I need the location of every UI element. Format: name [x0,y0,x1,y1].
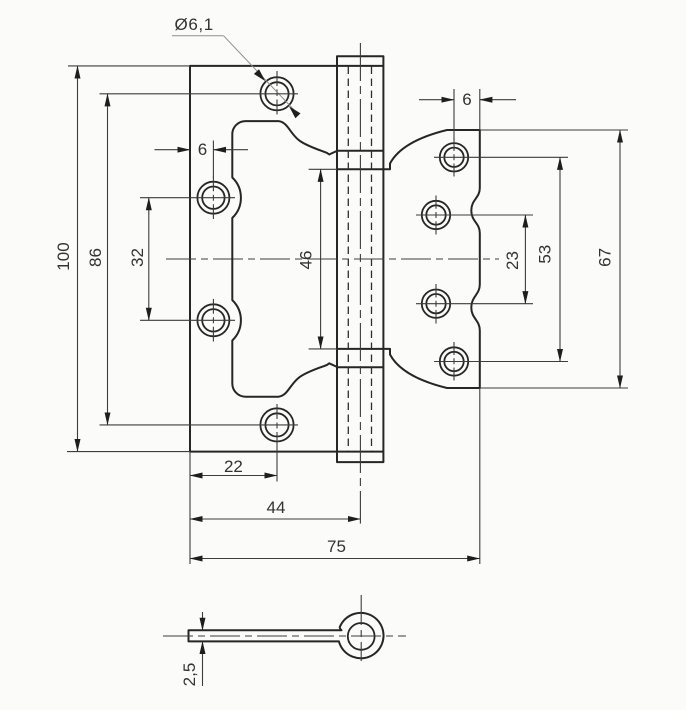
dim 86 extension bottom through hole [100,424,299,426]
dim 6 right extension left [453,89,455,140]
dim 6 left arrow left [155,149,191,151]
hole top-left vertical center tick [276,71,278,115]
svg-text:32: 32 [128,248,147,267]
screw hole left row3 [197,304,229,336]
dim 53 line [559,157,561,361]
svg-text:22: 22 [224,457,243,476]
svg-text:6: 6 [462,90,471,109]
hole r1 vertical tick [453,138,455,177]
left leaf top edge across barrel cap [337,65,383,67]
svg-text:2,5: 2,5 [180,663,199,687]
svg-text:53: 53 [536,245,555,264]
hinge barrel [337,56,383,462]
diameter arrow lower-right [289,106,301,118]
hole r4 vertical tick [453,342,455,381]
dim 100 extension bottom [67,451,190,453]
dim 100 extension top [68,65,190,67]
dim 67 extension top [480,129,628,131]
diameter leader diagonal through hole [224,36,296,112]
svg-text:44: 44 [267,498,286,517]
dim 86 extension top through hole [100,93,299,95]
screw hole left row2 [197,182,229,214]
svg-text:86: 86 [86,248,105,267]
dim 32 line [148,198,150,321]
dim 6 right arrow right [480,99,516,101]
dim 22 line [190,475,277,477]
diameter label leader underline [172,35,224,37]
svg-text:23: 23 [503,251,522,270]
dim 6 right extension right [479,89,481,130]
barrel axis centerline [359,43,361,524]
svg-text:Ø6,1: Ø6,1 [175,15,214,34]
hole r3 vertical tick [435,284,437,324]
barrel hidden bore line left [347,67,349,452]
svg-text:46: 46 [297,251,316,270]
knuckle line top inner [337,168,383,170]
svg-text:100: 100 [54,242,73,270]
hole r2 vertical tick [435,196,437,235]
dim 67 line [619,130,621,388]
dim 100 line [77,66,79,452]
dim 46 extension top [309,168,337,170]
extension line right leaf bottom long [479,388,481,564]
dim 6 left extension vertical [212,141,214,179]
barrel hidden bore line right [371,67,373,452]
knuckle line top outer [337,150,383,152]
dim 6 right arrow left [419,99,454,101]
side view horizontal centerline [163,635,406,637]
dim 6 left arrow right [213,149,248,151]
dim 32 extension top [140,197,235,199]
screw hole right leaf r1 [440,143,468,171]
dim 23 line [524,215,526,304]
horizontal centerline of hinge [166,258,499,260]
dim 67 extension bottom [480,387,628,389]
dim 46 extension bottom [309,348,337,350]
hole row2 vertical center tick [212,177,214,220]
svg-text:67: 67 [596,248,615,267]
extension line bottom-left long [189,452,191,564]
left leaf recess cutout [232,121,337,397]
dim 23 extension top [416,214,533,216]
dim 86 line [107,94,109,425]
dim 32 extension bottom [140,319,235,321]
dim 53 extension top [434,156,568,158]
dim 2,5 arrow bottom [202,641,204,686]
dim 2,5 arrow top [202,612,204,630]
dim 53 extension bottom [434,361,568,363]
dim 46 line [320,169,322,349]
svg-text:6: 6 [198,140,207,159]
hole row3 vertical center tick [212,299,214,342]
diameter arrow upper-left [254,69,265,81]
left leaf bottom edge across barrel cap [337,451,383,453]
side view pin bore circle [348,623,375,650]
screw hole bottom-left [260,408,293,441]
dim 75 line [190,558,480,560]
side view curled leaf profile [189,613,384,658]
screw hole top-left with countersink [260,77,293,110]
dim 23 extension bottom [416,303,533,305]
knuckle line bottom outer [337,366,383,368]
screw hole right leaf r3 [422,290,450,318]
left leaf plate [190,66,337,452]
screw hole right leaf r2 [422,201,450,229]
right leaf outline [383,130,479,388]
dim 44 line [190,518,360,520]
knuckle line bottom inner [337,348,383,350]
hole bottom-left vertical tick merged with 22 extension [276,404,278,482]
side view vertical centerline [360,595,362,661]
screw hole right leaf r4 [440,347,468,375]
svg-text:75: 75 [327,537,346,556]
